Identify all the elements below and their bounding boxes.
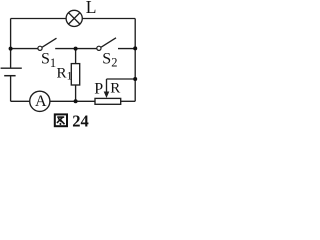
wire bottom-left to ammeter (11, 100, 30, 102)
wire S2 to right (118, 48, 135, 50)
node wiper-right junction (133, 77, 137, 81)
wire S1 to junction (55, 48, 96, 50)
wire rheostat to bottom-right corner (121, 100, 136, 102)
resistor R1 box (71, 64, 79, 85)
rheostat wiper arrowhead (104, 92, 110, 99)
wire left vertical lower (10, 76, 12, 102)
svg-text:R1: R1 (57, 65, 73, 82)
wire ammeter to rheostat (50, 100, 95, 102)
node left-middle junction (9, 47, 13, 51)
svg-text:24: 24 (72, 112, 89, 130)
wire left vertical upper (10, 19, 12, 69)
rheostat R box (95, 98, 121, 104)
node R1 top junction (74, 47, 78, 51)
ammeter A (30, 91, 50, 111)
battery cell long plate (1, 67, 22, 69)
battery cell short plate (4, 75, 15, 77)
svg-text:R: R (110, 81, 120, 97)
wire rheostat wiper arrow shaft (106, 79, 108, 93)
wire middle branch left (11, 48, 38, 50)
wire rheostat wiper horizontal (107, 78, 136, 80)
wire R1 branch upper (75, 49, 77, 64)
wire R1 branch lower (75, 85, 77, 101)
switch S1 (38, 46, 42, 50)
wire lamp to top-right corner (82, 18, 135, 20)
svg-text:P: P (94, 80, 103, 97)
switch S2 (97, 46, 101, 50)
svg-text:A: A (35, 93, 47, 110)
node R1 bottom junction (74, 99, 78, 103)
node right-middle junction (133, 46, 137, 50)
wire top-left horizontal to lamp (11, 18, 67, 20)
caption 图 (drawn glyph) (55, 114, 67, 126)
svg-text:L: L (86, 0, 97, 17)
wire right vertical (134, 19, 136, 102)
lamp L (66, 10, 82, 26)
